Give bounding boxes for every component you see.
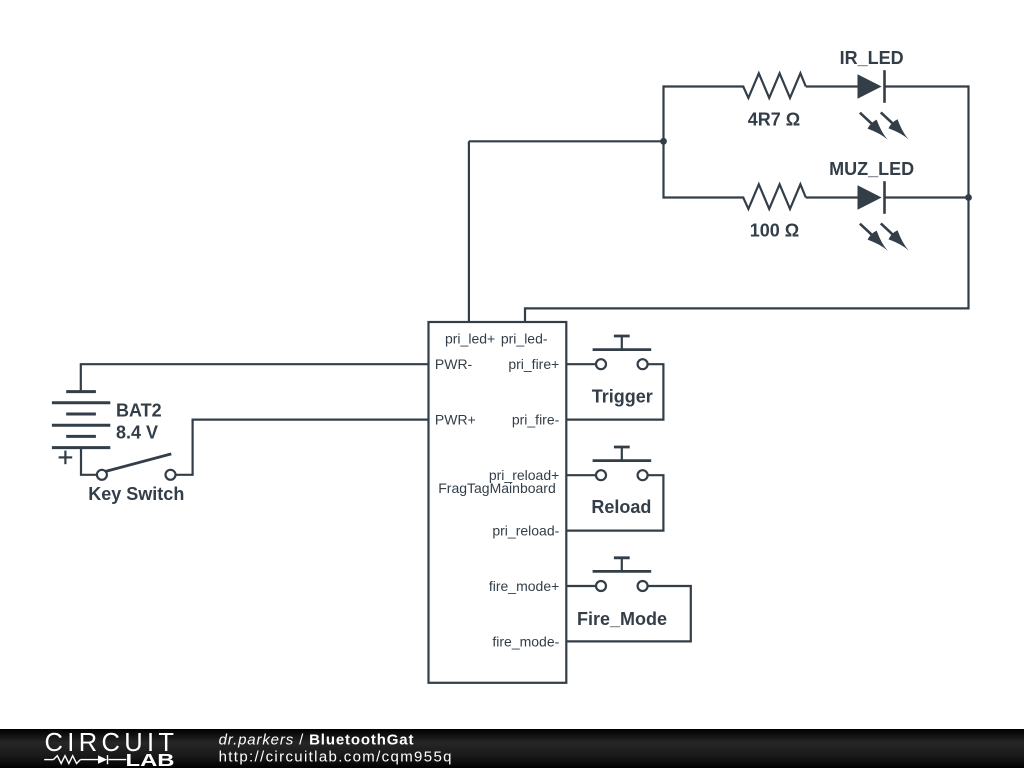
svg-text:pri_led-: pri_led- [501, 330, 548, 346]
wire [885, 85, 969, 87]
wire [468, 141, 470, 322]
svg-text:fire_mode-: fire_mode- [492, 633, 559, 649]
svg-text:8.4 V: 8.4 V [116, 423, 158, 443]
resistor 100 [743, 184, 806, 209]
svg-text:4R7 Ω: 4R7 Ω [748, 110, 800, 130]
svg-text:MUZ_LED: MUZ_LED [829, 159, 914, 179]
wire PWR- to battery [81, 364, 429, 391]
wire [525, 85, 969, 322]
svg-text:100 Ω: 100 Ω [750, 221, 799, 241]
switch Key Switch [97, 454, 176, 480]
svg-text:fire_mode+: fire_mode+ [489, 578, 559, 594]
wire [469, 140, 664, 142]
logo diode [98, 755, 107, 763]
wire [662, 85, 664, 198]
svg-text:pri_led+: pri_led+ [445, 330, 495, 346]
wire [806, 85, 859, 87]
mainboard U1 FragTagMainboard [429, 322, 567, 683]
wire [885, 196, 969, 198]
pushbutton Reload [566, 447, 663, 531]
battery BAT2 [52, 392, 110, 448]
node junction [965, 194, 972, 201]
pushbutton Fire_Mode [566, 558, 691, 642]
footer bar [0, 729, 1024, 768]
LED MUZ_LED [858, 181, 909, 251]
logo squiggle wire [44, 755, 126, 764]
svg-text:Reload: Reload [591, 497, 651, 517]
battery plus sign [59, 451, 73, 465]
svg-text:PWR+: PWR+ [435, 412, 476, 428]
svg-text:pri_reload-: pri_reload- [492, 523, 559, 539]
LED IR_LED [858, 70, 909, 140]
svg-text:FragTagMainboard: FragTagMainboard [438, 480, 556, 496]
svg-text:Fire_Mode: Fire_Mode [577, 609, 667, 629]
wire [176, 420, 429, 475]
svg-text:IR_LED: IR_LED [840, 48, 904, 68]
svg-text:PWR-: PWR- [435, 356, 473, 372]
svg-text:pri_fire+: pri_fire+ [508, 356, 559, 372]
svg-text:Trigger: Trigger [592, 387, 653, 407]
node junction [660, 138, 667, 145]
wire [81, 448, 97, 475]
wire [664, 85, 745, 87]
svg-text:pri_fire-: pri_fire- [512, 412, 560, 428]
svg-text:http://circuitlab.com/cqm955q: http://circuitlab.com/cqm955q [219, 749, 453, 766]
svg-text:dr.parkers / BluetoothGat: dr.parkers / BluetoothGat [219, 732, 415, 749]
resistor 4R7 [743, 73, 806, 98]
pushbutton Trigger [566, 336, 663, 420]
svg-text:LAB: LAB [126, 750, 175, 768]
wire [806, 196, 859, 198]
svg-text:Key Switch: Key Switch [88, 484, 184, 504]
wire [664, 196, 745, 198]
svg-text:BAT2: BAT2 [116, 401, 162, 421]
